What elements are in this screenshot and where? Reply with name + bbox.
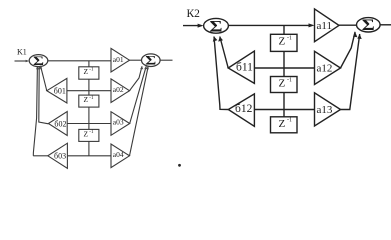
arrowhead fan B: [38, 66, 41, 69]
delay Z2 box: [79, 95, 99, 107]
wire row2: b02 base to a03 base: [67, 123, 111, 125]
svg-text:Σ: Σ: [33, 54, 44, 68]
svg-text:Σ: Σ: [362, 17, 375, 34]
amplifier a12 triangle: [315, 51, 341, 84]
wire row2: b12 base to a13 base: [254, 109, 314, 111]
wire row0: sum to a01: [48, 60, 111, 62]
wire: z-chain row0 to Z4: [283, 25, 285, 34]
svg-text:a11: a11: [317, 20, 332, 32]
wire: z-chain row0 to Z1: [88, 61, 90, 67]
delay Z3 box: [79, 129, 99, 141]
delay Z6 box: [271, 117, 298, 133]
wire row1: b01 base to a02 base: [67, 90, 111, 92]
arrowhead into sum3 input: [198, 24, 204, 28]
svg-text:б11: б11: [236, 62, 253, 74]
wire: a11 tip to sum4: [339, 24, 357, 26]
arrowhead into sum1 input: [26, 60, 30, 62]
arrowhead row0 into a11 base: [309, 23, 315, 27]
wire fan: sum3 to b11 tip: [220, 37, 228, 69]
svg-text:a12: a12: [317, 63, 333, 75]
arrowhead fan b11 into sum3: [218, 37, 223, 42]
svg-text:-1: -1: [89, 130, 94, 135]
wire slant: a12 tip to sum4: [341, 32, 356, 68]
svg-text:б03: б03: [54, 152, 66, 161]
wire slant: a04 tip to sum2: [130, 66, 149, 155]
svg-text:б12: б12: [235, 103, 253, 115]
wire: output of sum2: [160, 59, 172, 61]
svg-text:-1: -1: [287, 77, 292, 83]
svg-text:a01: a01: [113, 55, 124, 64]
amplifier b11 triangle: [228, 51, 254, 83]
amplifier b02 triangle: [48, 112, 67, 136]
node K1 input wire: [15, 60, 28, 62]
svg-text:Σ: Σ: [210, 19, 223, 36]
stray dot mark: [178, 164, 181, 167]
wire row3 left: elbow to b03 tip: [33, 155, 48, 157]
svg-text:Z: Z: [279, 78, 286, 90]
svg-text:Z: Z: [279, 36, 286, 48]
amplifier a01 triangle: [111, 48, 130, 72]
wire fan A: sum1 to b01 tip: [41, 66, 47, 91]
summing node U3 (input sum): [204, 18, 229, 33]
arrowhead fan A: [39, 66, 42, 69]
svg-text:a02: a02: [113, 85, 124, 94]
arrowhead slant a13 into sum4: [357, 34, 361, 39]
wire slant: a13 tip to sum4 elbow: [341, 34, 360, 110]
svg-text:a03: a03: [113, 118, 124, 127]
svg-text:Σ: Σ: [145, 54, 156, 68]
wire: Z4 to row1: [283, 51, 285, 76]
summing node U4 (output sum): [357, 18, 381, 32]
arrowhead slant a12 into sum4: [353, 32, 357, 37]
wire row3: b03 base to a04 base: [67, 155, 111, 157]
svg-text:Z: Z: [279, 118, 286, 130]
wire: a01 tip to sum2: [130, 59, 142, 61]
svg-text:б01: б01: [54, 86, 66, 95]
arrowhead slant a03 into sum2: [144, 66, 147, 69]
svg-text:Z: Z: [84, 95, 89, 104]
wire row0: sum3 to a11: [228, 24, 311, 26]
amplifier b12 triangle: [228, 94, 254, 126]
delay Z5 box: [271, 77, 298, 93]
amplifier b03 triangle: [48, 143, 68, 168]
summing node U1 (input sum): [29, 55, 48, 67]
svg-text:Z: Z: [84, 130, 89, 139]
svg-text:-1: -1: [89, 96, 94, 101]
delay Z1 box: [79, 67, 99, 79]
svg-text:a04: a04: [113, 150, 124, 159]
svg-text:К2: К2: [187, 8, 201, 20]
wire: Z5 to row2: [283, 93, 285, 117]
delay Z4 box: [271, 34, 298, 51]
svg-text:б02: б02: [54, 119, 66, 128]
wire: Z3 to row3: [88, 141, 90, 155]
amplifier a03 triangle: [111, 112, 130, 136]
svg-text:Z: Z: [84, 67, 89, 76]
wire slant: a02 tip to sum2: [130, 66, 143, 90]
svg-text:K1: K1: [17, 48, 27, 57]
amplifier a02 triangle: [111, 79, 130, 103]
svg-text:-1: -1: [287, 35, 292, 41]
wire fan C: sum1 to b03 tip elbow: [33, 66, 37, 156]
svg-text:-1: -1: [89, 68, 94, 73]
arrowhead fan b12 into sum3: [213, 37, 218, 42]
summing node U2 (output sum): [142, 54, 161, 67]
amplifier a11 triangle: [315, 9, 340, 42]
wire: Z2 to row2: [88, 107, 90, 129]
wire fan B: sum1 to b02 tip: [39, 66, 49, 124]
wire row1: b11 base to a12 base: [254, 67, 314, 69]
svg-text:a13: a13: [317, 104, 333, 116]
wire: Z1 to row1: [88, 79, 90, 95]
amplifier a13 triangle: [315, 93, 341, 126]
arrowhead fan C: [36, 66, 39, 69]
svg-text:-1: -1: [287, 118, 292, 124]
amplifier b01 triangle: [47, 78, 67, 103]
wire: output of sum4: [380, 24, 391, 26]
amplifier a04 triangle: [111, 144, 130, 168]
arrowhead slant a02 into sum2: [140, 66, 143, 69]
wire slant: a03 tip to sum2: [130, 66, 147, 123]
node K2 input wire: [183, 25, 200, 27]
wire fan: sum3 to b12 tip elbow: [214, 37, 228, 110]
arrowhead slant a04 into sum2: [146, 66, 149, 69]
